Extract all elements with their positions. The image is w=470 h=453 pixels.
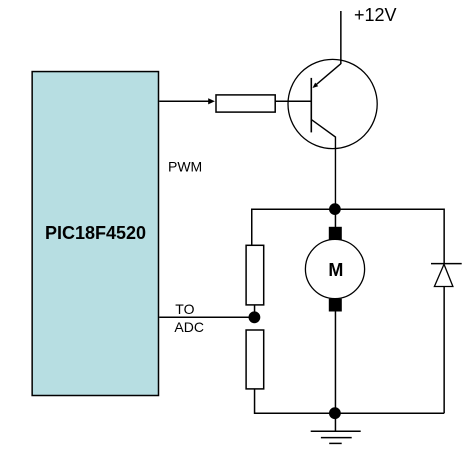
wire R3 to bottom rail [255,389,335,413]
svg-text:+12V: +12V [354,5,397,25]
node B junction dot (divider tap) [249,311,261,323]
wire node A to motor terminal [334,209,336,228]
resistor R3 (divider lower) [246,330,264,389]
svg-text:PIC18F4520: PIC18F4520 [45,223,146,243]
wire TO ADC (PIC to divider tap) [159,316,254,318]
transistor Q1 emitter lead (PNP) [316,64,341,85]
ground bar 2 [321,437,352,439]
svg-text:TO: TO [175,301,194,317]
svg-text:M: M [328,260,343,280]
wire +12V supply to emitter [340,11,342,64]
resistor R1 (base resistor) [216,95,275,112]
motor terminal square (top) [329,227,342,240]
wire PWM output (PIC to base resistor) [159,100,209,102]
diode D1 cathode bar [431,263,462,265]
wire bottom rail [255,412,445,414]
transistor Q1 circle [288,59,377,148]
resistor R2 (divider upper) [246,245,264,305]
microcontroller block PIC18F4520 [32,72,158,396]
ground bar 3 [329,442,342,444]
transistor Q1 base bar [310,78,312,132]
svg-text:PWM: PWM [168,159,202,175]
emitter arrowhead (points into base, PNP) [313,83,319,88]
diode D1 triangle (anode below, pointing up) [434,264,453,286]
wire R2 to node B [254,305,256,317]
wire diode anode to bottom rail [443,287,445,413]
ground bar 1 [311,430,361,432]
wire to ground [334,413,336,431]
wire R1 to transistor base [275,100,311,102]
transistor Q1 collector lead [312,120,336,206]
node A junction dot (collector / motor / rail) [329,203,341,215]
svg-text:ADC: ADC [174,319,204,335]
wire top rail [252,208,444,210]
arrowhead on PWM wire [208,98,215,104]
node C junction dot (ground node) [329,407,341,419]
motor M1 body [305,239,364,298]
wire top rail to diode cathode [443,209,445,264]
motor terminal square (bottom) [329,299,342,312]
wire top rail to divider resistor R2 [251,209,253,246]
wire motor to bottom rail [334,312,336,414]
